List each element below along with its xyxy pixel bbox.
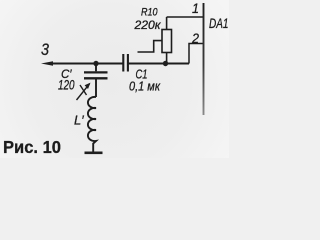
tap of R10 xyxy=(138,41,163,52)
svg-text:2: 2 xyxy=(191,30,199,46)
resistor R10 xyxy=(162,17,172,64)
svg-text:220к: 220к xyxy=(133,18,161,32)
svg-text:1: 1 xyxy=(192,0,199,16)
trimmer arrow of C' xyxy=(77,83,91,100)
svg-text:Рис. 10: Рис. 10 xyxy=(3,137,61,157)
svg-text:3: 3 xyxy=(41,40,49,59)
wire main horizontal right of C1 xyxy=(129,63,190,65)
wire junction to C' xyxy=(95,64,97,72)
svg-text:L′: L′ xyxy=(74,113,84,128)
svg-text:DA1: DA1 xyxy=(209,15,229,31)
ground xyxy=(85,152,103,155)
inductor L' xyxy=(88,97,96,152)
IC DA1 left edge xyxy=(203,3,205,115)
node junction dot C' xyxy=(93,61,98,66)
svg-text:0,1 мк: 0,1 мк xyxy=(129,80,161,94)
wire pin 2 xyxy=(189,44,204,64)
wire main horizontal left of C1 xyxy=(96,63,123,65)
capacitor C' (trimmer) xyxy=(84,72,108,78)
svg-text:R10: R10 xyxy=(141,7,158,19)
wire C' to coil xyxy=(95,78,97,97)
wire pin 1 xyxy=(167,16,204,18)
svg-text:120: 120 xyxy=(58,78,75,93)
capacitor C1 xyxy=(123,54,128,72)
node junction dot R10/pin2 xyxy=(163,61,168,66)
node 3 arrow xyxy=(41,61,96,66)
